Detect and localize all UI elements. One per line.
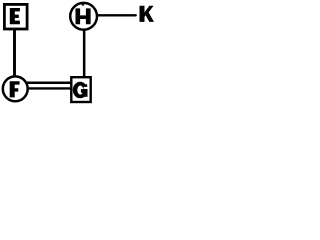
node H (circle) [70,3,97,30]
node G label (opening notch, white) [84,87,89,89]
node G (square) [71,77,90,102]
node H label [76,8,91,24]
wire H-G [83,26,86,80]
node E label [10,8,20,24]
wire E-F [13,26,16,80]
node G label (crossbar) [81,89,88,93]
node F (circle) [3,76,28,101]
wire F-G (double edge, bottom line) [24,87,73,89]
wire F-G (double edge, top line) [24,82,73,85]
node G label (right stem) [84,89,88,97]
wire H-K [95,14,136,16]
node H circle top nub [82,4,84,6]
node G label (upper-right tip) [84,84,87,87]
node E (square) [4,4,27,29]
node K label (plain text) [140,6,155,22]
node G label (ring part) [73,82,88,99]
node F label [10,81,20,97]
